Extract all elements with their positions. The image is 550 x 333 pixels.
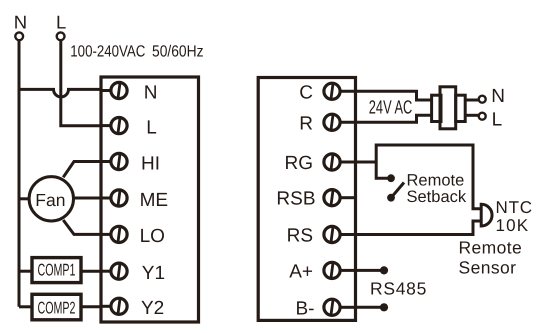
- terminal TB1-N: [101, 82, 158, 103]
- svg-text:100-240VAC: 100-240VAC: [70, 42, 145, 60]
- svg-text:L: L: [56, 12, 66, 33]
- wire RG to loop junction: [355, 161, 377, 164]
- svg-text:HI: HI: [141, 153, 160, 174]
- wire COMP1 to Y1: [81, 270, 101, 273]
- wire RG loop rail to sensor: [376, 145, 481, 209]
- svg-text:Remote: Remote: [459, 238, 523, 258]
- svg-text:N: N: [14, 12, 27, 33]
- terminal block TB1: [101, 77, 199, 322]
- svg-text:LO: LO: [140, 226, 165, 247]
- svg-text:COMP2: COMP2: [38, 298, 76, 317]
- wire fan to LO: [63, 220, 101, 234]
- svg-text:COMP1: COMP1: [38, 261, 76, 280]
- terminal TB2-A+: [289, 261, 355, 282]
- svg-text:Y2: Y2: [141, 298, 164, 319]
- label 100-240VAC 50/60Hz: [70, 42, 203, 60]
- terminal TB2-R: [299, 113, 340, 134]
- terminal TB1-ME: [101, 190, 168, 211]
- svg-text:50/60Hz: 50/60Hz: [152, 42, 204, 60]
- terminal block TB2: [258, 78, 355, 321]
- svg-text:Y1: Y1: [142, 263, 165, 284]
- terminal TB2-RSB: [276, 189, 354, 210]
- terminal N (mains input): [14, 12, 27, 40]
- switch S1 remote setback: [387, 174, 404, 201]
- svg-text:RG: RG: [285, 153, 314, 174]
- wire C to transformer (top of 24VAC box): [340, 91, 431, 100]
- compressor COMP2: [32, 294, 81, 320]
- svg-text:B-: B-: [296, 298, 315, 319]
- terminal TB2-RG: [285, 153, 355, 174]
- wire L to block terminal L: [61, 40, 101, 126]
- wire A+ (RS485): [355, 266, 389, 274]
- terminal TB2-C: [299, 82, 340, 103]
- svg-text:RS: RS: [287, 226, 313, 247]
- compressor COMP1: [32, 258, 81, 283]
- svg-text:A+: A+: [289, 261, 313, 282]
- svg-text:C: C: [299, 82, 313, 103]
- label NTC 10K: [496, 198, 533, 235]
- wire fan to HI: [63, 162, 101, 178]
- wire R to transformer (bottom of 24VAC box): [340, 115, 431, 122]
- terminal L (mains input): [56, 12, 66, 40]
- svg-text:N: N: [491, 86, 505, 107]
- svg-text:Sensor: Sensor: [459, 258, 517, 278]
- transformer T1: [432, 87, 466, 129]
- wire fan common to N bus: [19, 197, 29, 200]
- wire fan to ME: [73, 197, 101, 200]
- wire COMP2 to Y2: [81, 305, 101, 308]
- terminal TB2-B-: [296, 298, 356, 319]
- terminal TB1-HI: [101, 153, 160, 174]
- wire COMP2 to N bus: [19, 305, 32, 308]
- wire COMP1 to N bus: [19, 270, 32, 273]
- thermistor RT1 (NTC probe): [481, 204, 492, 226]
- terminal TB1-Y1: [101, 263, 165, 284]
- wire B- (RS485): [355, 303, 389, 311]
- wire N bus vertical: [18, 40, 21, 307]
- fan M1: [29, 177, 73, 221]
- svg-text:NTC: NTC: [496, 198, 533, 217]
- svg-text:Setback: Setback: [407, 188, 467, 206]
- svg-text:L: L: [146, 117, 157, 138]
- terminal L (24V out): [465, 110, 502, 131]
- svg-text:L: L: [492, 110, 503, 131]
- svg-text:RSB: RSB: [276, 189, 315, 210]
- wire RG junction down to switch contact: [376, 162, 388, 178]
- terminal TB1-LO: [101, 226, 165, 247]
- svg-text:N: N: [144, 82, 158, 103]
- label Remote Sensor: [459, 238, 523, 278]
- svg-text:Remote: Remote: [407, 171, 465, 189]
- terminal N (24V out): [465, 86, 505, 107]
- svg-text:RS485: RS485: [370, 278, 427, 298]
- terminal TB1-L: [101, 117, 157, 138]
- label Remote Setback: [407, 171, 467, 206]
- svg-text:R: R: [299, 113, 313, 134]
- svg-text:Fan: Fan: [35, 190, 65, 210]
- svg-text:ME: ME: [140, 190, 169, 211]
- svg-text:10K: 10K: [496, 216, 530, 235]
- terminal TB2-RS: [287, 226, 355, 247]
- svg-text:24V AC: 24V AC: [369, 98, 413, 119]
- wire RS to sensor: [355, 221, 482, 235]
- terminal TB1-Y2: [101, 298, 164, 319]
- wire N to block terminal N (with hop over L): [19, 89, 101, 97]
